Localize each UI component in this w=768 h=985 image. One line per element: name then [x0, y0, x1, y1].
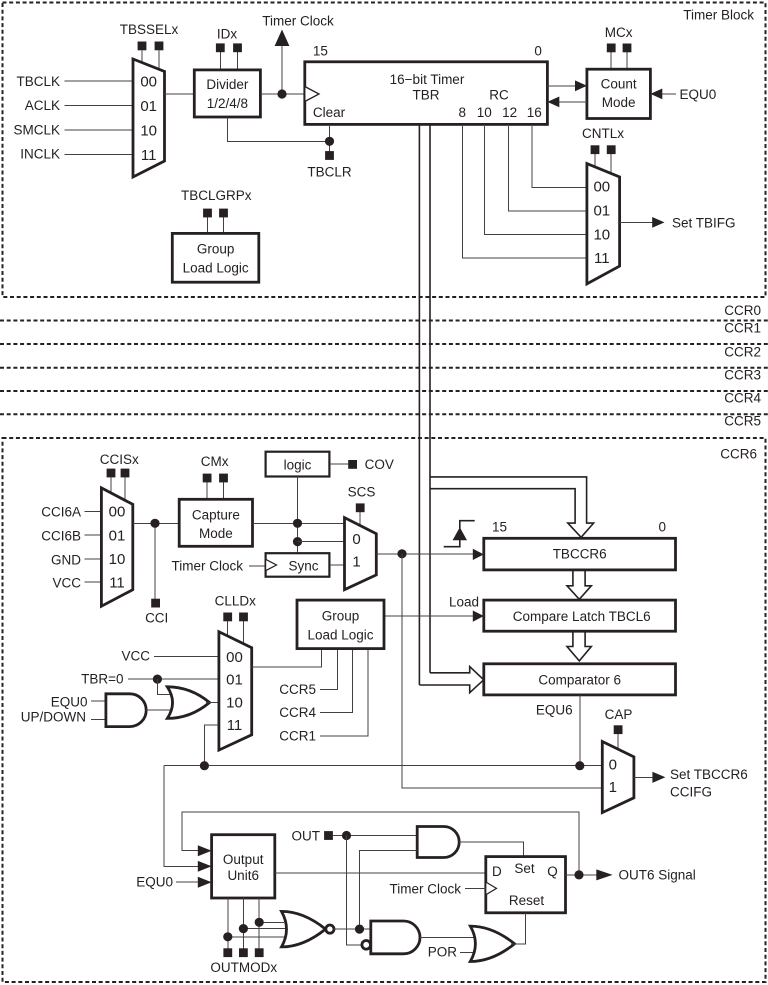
output unit box [212, 835, 275, 898]
wire OUT down to NAND [347, 836, 362, 945]
svg-text:INCLK: INCLK [20, 147, 60, 162]
node Q output [574, 870, 583, 879]
wire output unit to D input [275, 872, 486, 874]
wire VCC input [85, 581, 102, 583]
capture mode box [179, 499, 252, 546]
wire OR to flipflop reset [511, 913, 526, 944]
AND reset bubble input [362, 941, 371, 950]
svg-text:TBCCR6: TBCCR6 [553, 547, 607, 562]
clock chevron on sync [266, 559, 277, 570]
svg-text:Timer Block: Timer Block [683, 8, 754, 23]
wire TBR=0 down to OR [157, 679, 172, 694]
svg-text:CCR1: CCR1 [724, 321, 761, 336]
svg-text:TBR=0: TBR=0 [81, 672, 123, 687]
svg-text:10: 10 [109, 551, 126, 568]
svg-text:11: 11 [141, 147, 157, 164]
control square CCISx bit1 [121, 469, 130, 478]
arrow OUT6 state into output unit [198, 845, 212, 856]
wire CCI drop [154, 523, 156, 599]
arrow OUT6 signal [596, 869, 612, 880]
svg-text:SCS: SCS [348, 485, 376, 500]
svg-text:1/2/4/8: 1/2/4/8 [207, 96, 248, 111]
svg-text:CNTLx: CNTLx [582, 126, 624, 141]
wire CLLD mux output to group load logic [252, 649, 322, 667]
svg-text:Compare Latch TBCL6: Compare Latch TBCL6 [513, 609, 651, 624]
sync box [266, 553, 330, 577]
svg-text:CCR1: CCR1 [279, 728, 316, 743]
node NOR output [355, 925, 364, 934]
wire SCS control stub [359, 512, 361, 526]
svg-text:1: 1 [609, 779, 617, 796]
svg-text:IDx: IDx [217, 27, 238, 42]
control square TBCLGRPx bit0 [203, 209, 212, 218]
control square MCx bit1 [623, 44, 632, 53]
svg-text:Mode: Mode [602, 95, 636, 110]
control square IDx bit1 [233, 43, 242, 52]
svg-text:Comparator 6: Comparator 6 [538, 672, 621, 687]
node outmod 3 [255, 918, 264, 927]
wire CCR5 [320, 649, 337, 690]
control square CMx bit1 [219, 474, 228, 483]
wire outmod branch 1 [228, 936, 287, 938]
svg-text:CCR4: CCR4 [279, 705, 316, 720]
svg-text:Load: Load [449, 595, 479, 610]
wire COV [329, 463, 349, 465]
svg-text:OUT6 Signal: OUT6 Signal [619, 868, 696, 883]
svg-text:16−bit Timer: 16−bit Timer [390, 72, 465, 87]
wire AND reset to OR [420, 936, 476, 938]
svg-text:EQU6: EQU6 [536, 703, 573, 718]
wire OUT to AND gate [333, 835, 417, 837]
wire EQU6 down [579, 695, 581, 766]
wire NOR output up to AND set input [360, 850, 418, 929]
compare latch box [484, 600, 676, 631]
svg-text:RC: RC [489, 88, 509, 103]
svg-text:CCI6B: CCI6B [41, 529, 81, 544]
wire TBR bit12 to CNTL mux [509, 124, 587, 211]
svg-text:CCR4: CCR4 [724, 391, 761, 406]
wire TBR=0 to CLLD mux [128, 678, 219, 680]
wire outmod line 1 [227, 898, 229, 949]
node EQU6 left branch [200, 761, 209, 770]
svg-text:Divider: Divider [206, 77, 249, 92]
svg-text:00: 00 [593, 179, 610, 196]
control square CCI [151, 599, 160, 608]
wire CCR4 [320, 649, 352, 713]
control square TBSSELx bit1 [155, 42, 164, 51]
wire INCLK input [65, 154, 134, 156]
16-bit timer TBR box [305, 62, 548, 125]
svg-text:CMx: CMx [201, 454, 229, 469]
clock chevron on flipflop [486, 882, 497, 895]
svg-text:SMCLK: SMCLK [13, 123, 60, 138]
svg-text:CCI: CCI [145, 611, 168, 626]
group load logic box (CCR6) [297, 600, 384, 649]
arrow into TBCCR6 [473, 549, 484, 560]
svg-text:CCIFG: CCIFG [670, 785, 712, 800]
arrow set TBIFG [652, 217, 664, 228]
svg-text:11: 11 [227, 717, 243, 734]
wire clear up into TBR [329, 124, 331, 141]
wire OUT6 feedback [182, 812, 579, 875]
svg-text:ACLK: ACLK [25, 98, 60, 113]
bus branch into TBCCR6 top (hollow arrow) [430, 477, 594, 537]
Timer Block dashed border [3, 3, 766, 298]
control square CAP [614, 725, 623, 734]
logic box [266, 452, 330, 477]
wire VCC to CLLD mux [154, 655, 219, 657]
control square OUTMOD 3 [255, 948, 264, 957]
svg-text:Timer Clock: Timer Clock [262, 14, 334, 29]
wire divider bottom to clear [227, 117, 329, 141]
wire outmod line 2 [242, 898, 244, 949]
clock chevron on TBR [305, 87, 319, 102]
svg-text:Timer Clock: Timer Clock [171, 559, 243, 574]
control square CLLDx bit0 [223, 613, 232, 622]
svg-text:Q: Q [547, 864, 558, 879]
svg-text:Group: Group [197, 242, 235, 257]
control square OUTMOD 1 [223, 948, 232, 957]
svg-text:Clear: Clear [313, 105, 346, 120]
svg-text:CCR5: CCR5 [724, 414, 761, 429]
wire capture drop to CAP mux [402, 554, 602, 788]
wire CLLD mux input 11 [204, 725, 219, 766]
wire GND input [85, 558, 102, 560]
node clear junction [325, 137, 334, 146]
wire CCR1 [320, 649, 368, 736]
svg-text:01: 01 [140, 98, 157, 115]
hollow arrow TBCL6 to comparator [567, 632, 591, 661]
group load logic box (timer block) [172, 233, 258, 282]
node CCI capture junction [293, 519, 302, 528]
hollow arrow TBCCR6 to TBCL6 [567, 571, 591, 600]
wire capture mode to SCS mux [253, 522, 345, 524]
OR gate (reset) [470, 926, 514, 961]
svg-text:Timer Clock: Timer Clock [389, 882, 461, 897]
control square MCx bit0 [607, 44, 616, 53]
svg-text:0: 0 [534, 44, 542, 59]
wire EQU6 to output unit [164, 766, 199, 867]
control square CMx bit0 [203, 474, 212, 483]
wire timer clock up [281, 46, 283, 94]
svg-text:01: 01 [226, 672, 243, 689]
wire ACLK input [65, 105, 134, 107]
svg-text:01: 01 [109, 527, 126, 544]
wire TBCLGRPx control stubs [207, 217, 209, 233]
svg-text:Set TBIFG: Set TBIFG [672, 216, 736, 231]
wire CCI6B input [85, 534, 102, 536]
svg-text:11: 11 [594, 250, 610, 267]
wire AND set output to flipflop [459, 842, 523, 857]
control square COV [348, 460, 357, 469]
svg-text:10: 10 [226, 695, 243, 712]
wire clear down to TBCLR [329, 141, 331, 151]
svg-text:00: 00 [109, 503, 126, 520]
wire EQU0 into AND [91, 700, 106, 702]
wire IDx control stubs [219, 52, 221, 70]
mux SCS [345, 518, 377, 590]
svg-text:Group: Group [322, 609, 360, 624]
wire outmod branch 3 [259, 921, 284, 923]
control square TBSSELx bit0 [138, 42, 147, 51]
wire EQU0 into output unit [176, 881, 199, 883]
comparator box [484, 664, 676, 695]
svg-text:EQU0: EQU0 [680, 87, 717, 102]
svg-text:Count: Count [601, 77, 637, 92]
wire set TBIFG [620, 221, 653, 223]
arrow EQU0 into count mode [650, 89, 662, 100]
wire TBCLK input [65, 80, 134, 82]
arrow EQU6 into output unit [198, 861, 212, 872]
svg-text:12: 12 [502, 105, 517, 120]
arrow EQU0 into output unit [198, 877, 212, 888]
svg-text:Set: Set [514, 861, 535, 876]
svg-text:OUT: OUT [292, 829, 321, 844]
AND gate (CLLD) [106, 694, 146, 727]
AND gate (reset) [371, 921, 420, 954]
wire CLLDx control stubs [227, 621, 229, 637]
wire OR to CLLD mux [206, 702, 219, 704]
svg-text:EQU0: EQU0 [136, 875, 173, 890]
wire TBR to count mode [547, 85, 576, 87]
wire sync to SCS mux input 1 [329, 564, 344, 566]
control square TBCLR [325, 151, 334, 160]
wire mux to divider [165, 93, 195, 95]
svg-text:CCR2: CCR2 [724, 344, 761, 359]
control square CNTLx bit0 [591, 145, 600, 154]
wire CAP control stub [617, 734, 619, 751]
wire Q output [566, 874, 598, 876]
svg-text:11: 11 [109, 574, 125, 591]
wire EQU0 input [661, 93, 676, 95]
wire count mode to TBR [559, 101, 587, 103]
svg-text:Load Logic: Load Logic [183, 261, 249, 276]
control square OUTMOD 2 [239, 948, 248, 957]
node CCI [150, 519, 159, 528]
svg-text:Mode: Mode [199, 526, 233, 541]
mux CAP [602, 742, 634, 813]
wire AND to OR [146, 709, 174, 711]
svg-text:CCR0: CCR0 [724, 303, 761, 318]
svg-text:0: 0 [352, 531, 360, 548]
svg-text:Output: Output [223, 852, 264, 867]
wire outmod branch 2 [243, 928, 285, 930]
control square CLLDx bit1 [239, 613, 248, 622]
node outmod 1 [223, 932, 232, 941]
control square OUT [324, 831, 333, 840]
wire POR into OR [460, 952, 477, 954]
svg-text:16: 16 [527, 105, 542, 120]
wire TBR bit10 to CNTL mux [484, 124, 587, 234]
svg-text:CAP: CAP [605, 707, 633, 722]
wire CNTLx control stubs [594, 154, 596, 168]
wire load [384, 615, 474, 617]
bus TBR bit line left [418, 124, 420, 685]
CCR4/CCR5 separator dashed line [0, 413, 768, 415]
svg-text:00: 00 [226, 649, 243, 666]
arrow into count mode [575, 80, 587, 91]
node TBR=0 branch [153, 675, 162, 684]
svg-text:Capture: Capture [192, 508, 240, 523]
bus TBR bit line right [429, 124, 431, 672]
wire EQU6 horizontal [164, 765, 602, 767]
wire UP/DOWN into AND [91, 719, 106, 721]
svg-text:Reset: Reset [509, 893, 545, 908]
svg-text:CCI6A: CCI6A [41, 505, 81, 520]
wire TBSSELx control stubs [141, 51, 143, 66]
control square TBCLGRPx bit1 [219, 209, 228, 218]
mux TBSSELx [133, 59, 165, 177]
svg-text:Sync: Sync [288, 559, 318, 574]
wire CMx control stubs [206, 482, 208, 499]
mux CLLDx [219, 632, 252, 750]
wire CCI vertical logic to sync [297, 477, 299, 554]
svg-text:GND: GND [51, 553, 81, 568]
CCR0/CCR1 separator dashed line [0, 320, 768, 322]
bus branch into comparator (hollow arrow) [419, 667, 483, 693]
wire async to SCS mux input 0 [298, 541, 345, 543]
svg-text:01: 01 [593, 203, 610, 220]
CCR2/CCR3 separator dashed line [0, 367, 768, 369]
divider box [194, 70, 260, 117]
svg-text:00: 00 [140, 74, 157, 91]
arrow load into TBCL6 [473, 611, 484, 622]
count mode box [587, 69, 651, 118]
svg-text:Unit6: Unit6 [227, 868, 259, 883]
CCR3/CCR4 separator dashed line [0, 390, 768, 392]
svg-text:TBCLR: TBCLR [307, 165, 352, 180]
svg-text:EQU0: EQU0 [51, 695, 88, 710]
wire outmod line 3 [258, 898, 260, 949]
wire CCIS mux to capture mode [133, 522, 179, 524]
TBCCR6 box [484, 538, 676, 570]
svg-text:TBR: TBR [413, 88, 440, 103]
wire MCx control stubs [610, 52, 612, 69]
svg-text:CLLDx: CLLDx [215, 594, 257, 609]
OR gate (CLLD) [167, 687, 209, 719]
svg-text:TBCLK: TBCLK [16, 74, 60, 89]
D flipflop box [486, 857, 566, 913]
svg-text:15: 15 [313, 44, 328, 59]
arrow into TBR [547, 97, 559, 108]
NOR bubble [326, 925, 334, 933]
svg-text:10: 10 [477, 105, 492, 120]
node OUT [342, 831, 351, 840]
svg-text:10: 10 [593, 226, 610, 243]
svg-text:OUTMODx: OUTMODx [210, 960, 277, 975]
wire TBR bit8 to CNTL mux [462, 124, 587, 258]
node capture signal [397, 549, 406, 558]
arrow set TBCCR6 CCIFG [652, 772, 665, 783]
svg-text:Load Logic: Load Logic [307, 628, 373, 643]
svg-text:15: 15 [492, 519, 507, 534]
wire CCI6A input [85, 510, 102, 512]
svg-text:Set TBCCR6: Set TBCCR6 [670, 767, 748, 782]
control square SCS [356, 503, 365, 512]
arrow timer clock [275, 30, 290, 47]
wire divider to TBR [260, 93, 304, 95]
wire CCISx control stubs [110, 478, 112, 495]
CCR1/CCR2 separator dashed line [0, 343, 768, 345]
svg-text:COV: COV [365, 457, 394, 472]
CCR6 dashed border [3, 438, 766, 982]
svg-text:0: 0 [659, 519, 667, 534]
svg-text:VCC: VCC [121, 649, 150, 664]
svg-text:D: D [492, 864, 502, 879]
node CCI async junction [293, 537, 302, 546]
svg-text:VCC: VCC [52, 576, 81, 591]
node EQU6 right branch [575, 761, 584, 770]
svg-text:0: 0 [609, 757, 617, 774]
mux CCISx [101, 488, 132, 606]
wire SCS mux to TBCCR6 [376, 553, 473, 555]
AND gate (set) [417, 827, 459, 858]
svg-text:POR: POR [428, 945, 458, 960]
svg-text:logic: logic [284, 458, 312, 473]
wire timer clock to flipflop [465, 887, 486, 889]
svg-text:8: 8 [459, 105, 467, 120]
svg-text:CCR6: CCR6 [720, 447, 757, 462]
control square IDx bit0 [216, 43, 225, 52]
svg-text:CCR3: CCR3 [724, 367, 761, 382]
svg-text:10: 10 [140, 123, 157, 140]
wire TBR bit16 to CNTL mux [532, 124, 587, 187]
control square CCISx bit0 [107, 469, 116, 478]
svg-text:TBCLGRPx: TBCLGRPx [181, 188, 252, 203]
svg-text:MCx: MCx [605, 25, 633, 40]
svg-text:TBSSELx: TBSSELx [120, 22, 179, 37]
svg-text:UP/DOWN: UP/DOWN [21, 709, 86, 724]
node timer clock [277, 89, 286, 98]
wire NOR to AND [334, 928, 371, 930]
svg-text:CCR5: CCR5 [279, 682, 316, 697]
capture edge symbol [444, 521, 475, 547]
svg-text:CCISx: CCISx [100, 452, 139, 467]
control square CNTLx bit1 [607, 145, 616, 154]
wire SMCLK input [65, 129, 134, 131]
svg-text:1: 1 [352, 554, 360, 571]
node outmod 2 [239, 924, 248, 933]
NOR gate (outmod) [282, 911, 326, 947]
wire timer clock to sync [249, 565, 266, 567]
wire CAP mux output [634, 776, 653, 778]
mux CNTLx [587, 164, 620, 284]
